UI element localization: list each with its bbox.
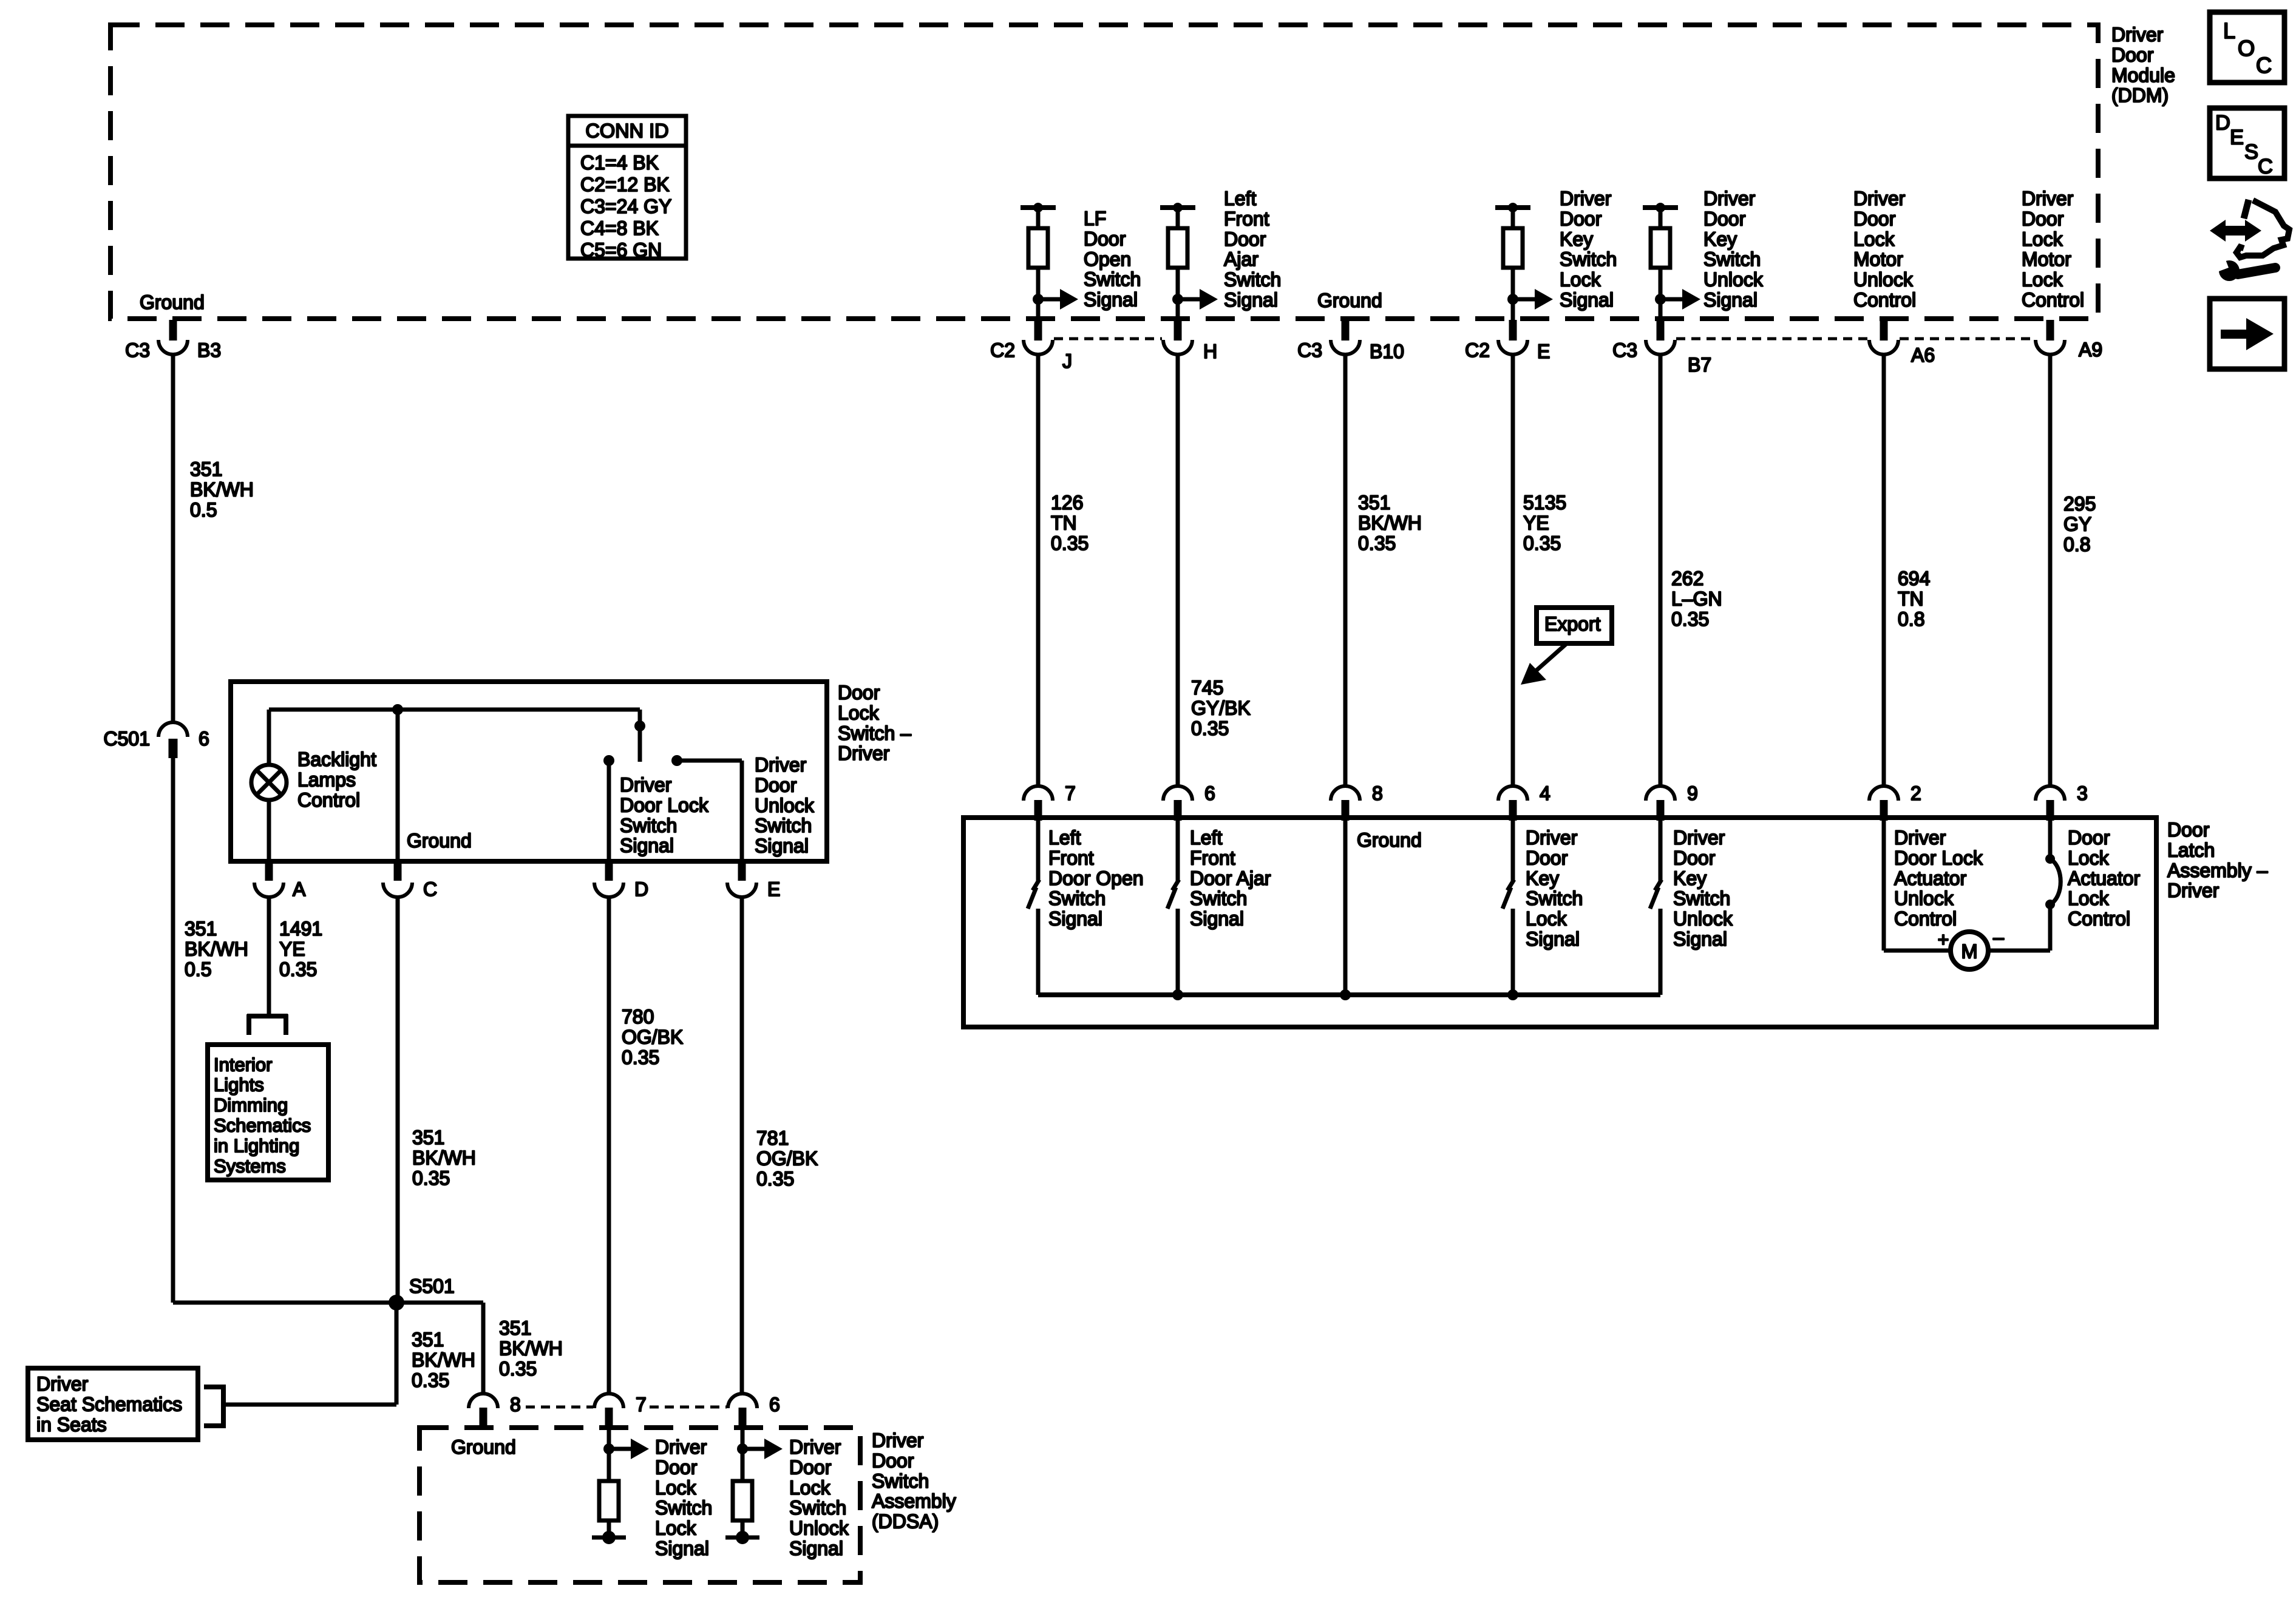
svg-text:C3=24 GY: C3=24 GY xyxy=(580,195,671,217)
svg-text:Motor: Motor xyxy=(1853,248,1903,270)
svg-text:Signal: Signal xyxy=(1224,289,1278,311)
svg-text:126: 126 xyxy=(1051,492,1083,514)
svg-text:Ground: Ground xyxy=(1317,290,1382,311)
svg-text:5135: 5135 xyxy=(1523,492,1566,514)
svg-text:Door: Door xyxy=(655,1456,698,1478)
svg-text:Lock: Lock xyxy=(838,702,880,724)
svg-text:Driver: Driver xyxy=(1703,188,1756,209)
svg-text:Signal: Signal xyxy=(1526,928,1580,950)
svg-text:0.35: 0.35 xyxy=(1523,532,1561,554)
svg-text:Control: Control xyxy=(2022,289,2084,311)
svg-text:A6: A6 xyxy=(1911,344,1935,366)
svg-text:6: 6 xyxy=(1204,782,1215,804)
svg-text:Door: Door xyxy=(2111,44,2154,66)
svg-text:S501: S501 xyxy=(409,1275,455,1297)
svg-text:Driver: Driver xyxy=(1526,827,1578,849)
svg-text:Lights: Lights xyxy=(214,1074,264,1096)
svg-text:Driver: Driver xyxy=(1673,827,1725,849)
svg-text:Signal: Signal xyxy=(1560,289,1614,311)
svg-text:Signal: Signal xyxy=(1084,289,1138,311)
svg-text:Assembly –: Assembly – xyxy=(2167,859,2268,881)
svg-text:Front: Front xyxy=(1048,847,1094,869)
svg-text:L: L xyxy=(2223,18,2235,43)
svg-text:0.5: 0.5 xyxy=(190,499,217,521)
svg-text:in Lighting: in Lighting xyxy=(214,1135,299,1156)
svg-text:4: 4 xyxy=(1540,782,1550,804)
svg-text:Driver: Driver xyxy=(2167,880,2220,901)
svg-text:C3: C3 xyxy=(1612,339,1637,361)
svg-text:Driver: Driver xyxy=(36,1373,89,1395)
svg-text:Door Lock: Door Lock xyxy=(620,794,709,816)
svg-text:Lock: Lock xyxy=(2022,228,2063,250)
svg-text:351: 351 xyxy=(412,1329,444,1351)
svg-text:Door: Door xyxy=(2022,208,2064,229)
svg-text:Switch: Switch xyxy=(872,1470,929,1492)
svg-text:780: 780 xyxy=(622,1006,654,1028)
svg-text:262: 262 xyxy=(1671,568,1703,589)
svg-text:Lock: Lock xyxy=(2022,269,2063,291)
svg-text:Door: Door xyxy=(1703,208,1746,229)
svg-text:YE: YE xyxy=(279,938,305,960)
svg-text:Key: Key xyxy=(1560,228,1593,250)
svg-text:TN: TN xyxy=(1051,512,1077,534)
svg-text:Assembly: Assembly xyxy=(872,1490,956,1512)
svg-text:0.35: 0.35 xyxy=(412,1167,450,1189)
svg-text:Control: Control xyxy=(1894,908,1957,930)
svg-text:C2=12 BK: C2=12 BK xyxy=(580,174,670,195)
svg-text:Key: Key xyxy=(1673,867,1707,889)
svg-text:Switch: Switch xyxy=(1190,887,1247,909)
svg-text:6: 6 xyxy=(769,1394,780,1415)
svg-text:Unlock: Unlock xyxy=(1853,269,1914,291)
svg-text:Door: Door xyxy=(838,682,880,703)
svg-text:YE: YE xyxy=(1523,512,1549,534)
svg-text:Driver: Driver xyxy=(1560,188,1612,209)
svg-text:Lock: Lock xyxy=(1853,228,1895,250)
svg-text:6: 6 xyxy=(199,728,209,750)
svg-text:B10: B10 xyxy=(1370,341,1404,362)
svg-text:C5=6 GN: C5=6 GN xyxy=(580,239,662,261)
svg-text:B7: B7 xyxy=(1688,354,1711,376)
svg-text:Dimming: Dimming xyxy=(214,1094,288,1116)
svg-text:1491: 1491 xyxy=(279,918,322,940)
svg-text:Door: Door xyxy=(1673,847,1716,869)
svg-text:Ground: Ground xyxy=(1357,829,1422,851)
svg-text:Driver: Driver xyxy=(755,754,807,776)
svg-text:Switch: Switch xyxy=(1560,248,1617,270)
svg-text:Lock: Lock xyxy=(1526,908,1567,930)
svg-text:B3: B3 xyxy=(197,339,221,361)
svg-text:BK/WH: BK/WH xyxy=(1358,512,1422,534)
svg-text:Switch: Switch xyxy=(1526,887,1583,909)
svg-text:0.35: 0.35 xyxy=(279,958,317,980)
svg-text:Lamps: Lamps xyxy=(297,768,356,790)
svg-text:351: 351 xyxy=(412,1127,444,1148)
svg-text:0.35: 0.35 xyxy=(756,1168,794,1190)
svg-text:Door: Door xyxy=(1084,228,1126,249)
svg-text:Actuator: Actuator xyxy=(2068,867,2141,889)
svg-text:BK/WH: BK/WH xyxy=(190,478,254,500)
svg-text:in Seats: in Seats xyxy=(36,1414,107,1436)
svg-text:351: 351 xyxy=(499,1317,531,1339)
svg-text:Switch: Switch xyxy=(1703,248,1761,270)
svg-text:Unlock: Unlock xyxy=(1894,887,1954,909)
svg-text:C1=4 BK: C1=4 BK xyxy=(580,152,659,174)
svg-text:J: J xyxy=(1062,350,1072,372)
svg-text:Door: Door xyxy=(2167,819,2210,841)
svg-text:Signal: Signal xyxy=(1673,928,1727,950)
svg-text:E: E xyxy=(1537,341,1550,362)
svg-text:S: S xyxy=(2244,141,2258,164)
svg-text:Module: Module xyxy=(2111,64,2175,86)
svg-text:0.8: 0.8 xyxy=(2063,534,2090,555)
svg-text:Ground: Ground xyxy=(451,1436,516,1458)
svg-text:8: 8 xyxy=(510,1394,521,1415)
svg-text:0.35: 0.35 xyxy=(1191,717,1229,739)
svg-text:A9: A9 xyxy=(2079,339,2102,361)
svg-text:9: 9 xyxy=(1687,782,1698,804)
svg-text:Switch: Switch xyxy=(1224,269,1281,291)
svg-text:Driver: Driver xyxy=(1853,188,1906,209)
svg-text:2: 2 xyxy=(1911,782,1921,804)
svg-text:Door: Door xyxy=(1853,208,1896,229)
svg-text:Unlock: Unlock xyxy=(1673,908,1733,930)
svg-text:Lock: Lock xyxy=(2068,847,2110,869)
svg-text:C4=8 BK: C4=8 BK xyxy=(580,217,659,239)
svg-text:Door: Door xyxy=(1560,208,1602,229)
svg-text:–: – xyxy=(1993,926,2004,948)
svg-text:D: D xyxy=(2215,112,2230,135)
svg-text:C3: C3 xyxy=(1297,339,1322,361)
svg-text:Driver: Driver xyxy=(655,1436,707,1458)
svg-text:Left: Left xyxy=(1224,188,1256,209)
svg-text:Driver: Driver xyxy=(2111,24,2164,46)
svg-text:Door: Door xyxy=(755,774,797,796)
svg-text:C: C xyxy=(2258,155,2273,178)
svg-text:Switch: Switch xyxy=(1048,887,1106,909)
svg-text:351: 351 xyxy=(190,458,222,480)
svg-text:Control: Control xyxy=(1853,289,1916,311)
svg-text:Driver: Driver xyxy=(2022,188,2074,209)
svg-text:OG/BK: OG/BK xyxy=(622,1026,683,1048)
svg-text:H: H xyxy=(1203,341,1217,362)
svg-text:Switch: Switch xyxy=(789,1497,846,1519)
svg-text:Driver: Driver xyxy=(872,1429,924,1451)
svg-text:8: 8 xyxy=(1372,782,1383,804)
svg-text:Door Lock: Door Lock xyxy=(1894,847,1983,869)
svg-text:0.35: 0.35 xyxy=(622,1046,659,1068)
svg-text:Switch: Switch xyxy=(655,1497,712,1519)
svg-text:Left: Left xyxy=(1048,827,1081,849)
svg-text:Control: Control xyxy=(297,789,360,811)
svg-text:Motor: Motor xyxy=(2022,248,2071,270)
svg-text:Door: Door xyxy=(789,1456,832,1478)
svg-text:+: + xyxy=(1938,929,1949,951)
svg-text:Key: Key xyxy=(1703,228,1737,250)
svg-text:BK/WH: BK/WH xyxy=(412,1349,475,1371)
svg-text:Front: Front xyxy=(1224,208,1269,229)
svg-text:Signal: Signal xyxy=(1048,908,1102,930)
svg-text:O: O xyxy=(2238,36,2255,61)
svg-text:Schematics: Schematics xyxy=(214,1115,311,1136)
svg-text:D: D xyxy=(634,878,648,900)
svg-text:Signal: Signal xyxy=(1190,908,1244,930)
svg-text:Switch: Switch xyxy=(620,815,677,836)
svg-text:E: E xyxy=(2230,126,2244,149)
svg-text:Unlock: Unlock xyxy=(789,1517,849,1539)
svg-text:A: A xyxy=(293,878,306,900)
svg-text:Driver: Driver xyxy=(1894,827,1946,849)
svg-text:0.35: 0.35 xyxy=(499,1358,537,1380)
svg-text:Systems: Systems xyxy=(214,1155,286,1176)
svg-text:Signal: Signal xyxy=(620,835,674,856)
svg-text:Signal: Signal xyxy=(755,835,809,857)
svg-text:Switch: Switch xyxy=(755,815,812,836)
svg-text:Lock: Lock xyxy=(655,1517,697,1539)
svg-text:295: 295 xyxy=(2063,493,2096,515)
svg-text:CONN ID: CONN ID xyxy=(585,120,668,141)
svg-text:OG/BK: OG/BK xyxy=(756,1147,818,1169)
svg-text:0.35: 0.35 xyxy=(1358,532,1396,554)
svg-text:Signal: Signal xyxy=(789,1537,843,1559)
svg-text:Switch: Switch xyxy=(1673,887,1730,909)
svg-text:C2: C2 xyxy=(1465,339,1490,361)
svg-text:L–GN: L–GN xyxy=(1671,588,1722,609)
svg-text:Unlock: Unlock xyxy=(755,795,815,816)
svg-text:3: 3 xyxy=(2077,782,2088,804)
svg-text:GY: GY xyxy=(2063,513,2091,535)
svg-text:Control: Control xyxy=(2068,908,2130,930)
svg-text:BK/WH: BK/WH xyxy=(412,1147,476,1168)
svg-text:C: C xyxy=(2256,53,2272,78)
svg-text:7: 7 xyxy=(1065,782,1076,804)
svg-text:Lock: Lock xyxy=(655,1477,697,1499)
svg-text:Signal: Signal xyxy=(655,1537,709,1559)
svg-text:0.35: 0.35 xyxy=(412,1369,449,1391)
svg-text:Driver: Driver xyxy=(838,742,890,764)
svg-text:C2: C2 xyxy=(990,339,1015,361)
svg-text:Door Open: Door Open xyxy=(1048,867,1144,889)
svg-text:Lock: Lock xyxy=(2068,887,2110,909)
svg-text:Door: Door xyxy=(1526,847,1568,869)
svg-text:(DDSA): (DDSA) xyxy=(872,1511,939,1533)
svg-text:Ground: Ground xyxy=(407,830,472,852)
svg-text:351: 351 xyxy=(185,918,217,940)
svg-text:LF: LF xyxy=(1084,208,1106,229)
svg-text:Driver: Driver xyxy=(789,1436,841,1458)
svg-text:Lock: Lock xyxy=(1560,269,1601,291)
svg-text:Latch: Latch xyxy=(2167,839,2215,861)
svg-text:Ajar: Ajar xyxy=(1224,248,1258,270)
svg-text:Key: Key xyxy=(1526,867,1559,889)
svg-text:Door: Door xyxy=(1224,228,1266,250)
svg-text:(DDM): (DDM) xyxy=(2111,84,2169,106)
svg-text:Seat Schematics: Seat Schematics xyxy=(36,1393,182,1415)
svg-text:351: 351 xyxy=(1358,492,1390,514)
svg-text:BK/WH: BK/WH xyxy=(499,1337,563,1359)
svg-text:C501: C501 xyxy=(104,728,151,750)
svg-text:C: C xyxy=(423,878,437,900)
svg-text:Interior: Interior xyxy=(214,1054,272,1075)
svg-text:Export: Export xyxy=(1544,613,1601,635)
svg-text:Signal: Signal xyxy=(1703,289,1758,311)
svg-text:Door: Door xyxy=(2068,827,2110,849)
svg-text:694: 694 xyxy=(1898,568,1930,589)
svg-text:Backlight: Backlight xyxy=(297,748,376,770)
svg-text:M: M xyxy=(1961,940,1977,962)
svg-text:Left: Left xyxy=(1190,827,1222,849)
svg-text:0.5: 0.5 xyxy=(185,958,211,980)
svg-text:Front: Front xyxy=(1190,847,1235,869)
svg-text:Lock: Lock xyxy=(789,1477,831,1499)
svg-text:745: 745 xyxy=(1191,677,1223,699)
svg-text:Door: Door xyxy=(872,1449,914,1471)
svg-text:0.35: 0.35 xyxy=(1671,608,1709,630)
svg-text:BK/WH: BK/WH xyxy=(185,938,248,960)
svg-text:0.35: 0.35 xyxy=(1051,532,1089,554)
svg-text:Actuator: Actuator xyxy=(1894,867,1967,889)
svg-text:GY/BK: GY/BK xyxy=(1191,697,1251,719)
svg-text:Driver: Driver xyxy=(620,774,672,796)
svg-text:E: E xyxy=(767,878,780,900)
svg-text:Ground: Ground xyxy=(140,291,205,313)
svg-text:Open: Open xyxy=(1084,248,1131,270)
svg-text:Unlock: Unlock xyxy=(1703,269,1764,291)
svg-text:7: 7 xyxy=(636,1394,647,1415)
svg-text:Switch –: Switch – xyxy=(838,722,911,744)
svg-text:Switch: Switch xyxy=(1084,268,1141,290)
svg-text:C3: C3 xyxy=(125,339,150,361)
svg-text:TN: TN xyxy=(1898,588,1924,609)
svg-text:0.8: 0.8 xyxy=(1898,608,1924,630)
svg-text:Door Ajar: Door Ajar xyxy=(1190,867,1271,889)
svg-text:781: 781 xyxy=(756,1127,789,1149)
